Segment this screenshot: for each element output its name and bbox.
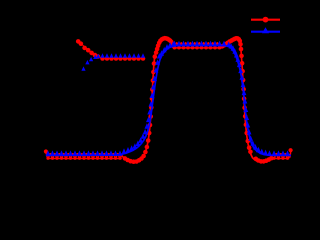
- red curve line (series 1, oscillatory): [46, 151, 48, 158]
- red curve markers: [44, 36, 293, 164]
- legend red sample: [251, 17, 280, 23]
- blue curve markers: [46, 41, 290, 156]
- inset blue markers: [81, 53, 145, 71]
- blue curve line (series 2, smooth): [46, 46, 291, 156]
- red baseline under-band left: [48, 158, 122, 160]
- red baseline under-band right: [274, 158, 290, 160]
- inset red line: [78, 41, 143, 58]
- inset red markers: [76, 39, 145, 61]
- red plateau under-band: [176, 47, 223, 49]
- legend blue sample: [251, 27, 280, 33]
